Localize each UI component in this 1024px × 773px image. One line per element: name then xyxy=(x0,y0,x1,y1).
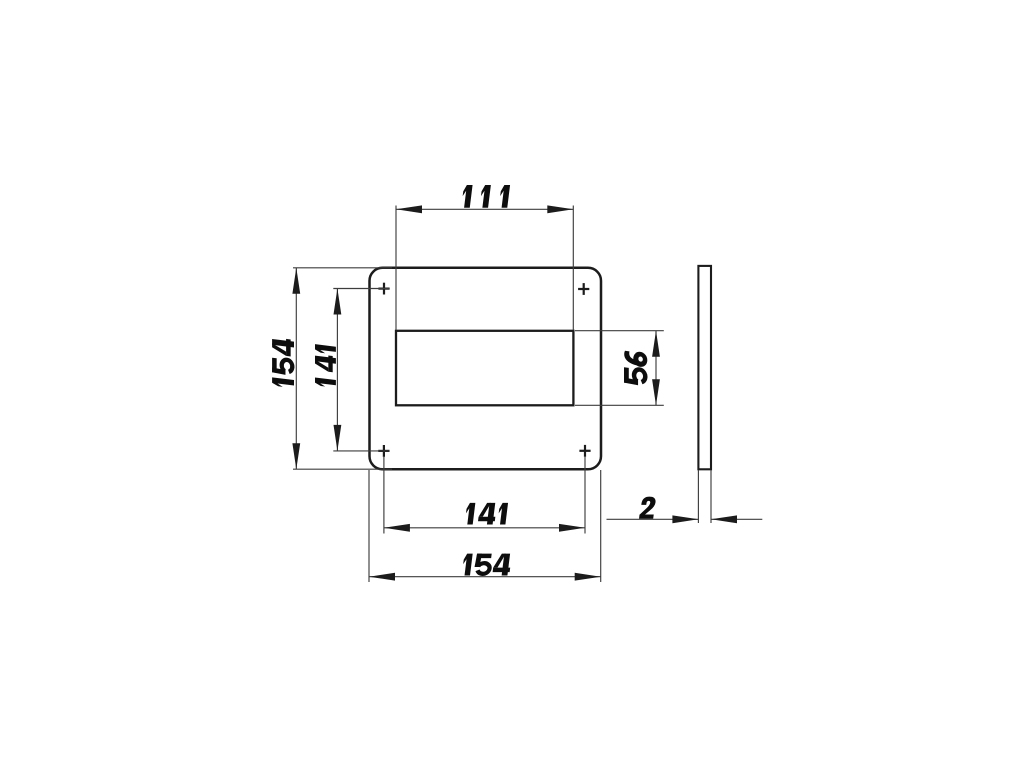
dimension 154 left line xyxy=(295,268,297,469)
dimension 141 bottom arrows xyxy=(384,524,585,532)
plate outline (front view) xyxy=(370,268,602,470)
dimension 141 left line xyxy=(336,289,338,451)
dimension 111 line xyxy=(396,208,573,210)
dimension 141 left label xyxy=(315,344,336,388)
dimension 56 label xyxy=(624,350,647,386)
side view plate xyxy=(698,266,711,469)
dimension 111 extension lines xyxy=(396,206,573,331)
dimension 2 label xyxy=(639,497,656,519)
dimension 154 bottom extension lines xyxy=(369,470,601,582)
slot cutout xyxy=(396,331,573,406)
dimension 2 lines xyxy=(607,518,763,520)
dimension 111 label xyxy=(461,185,510,208)
dimension 154 bottom line xyxy=(369,576,601,578)
dimension 154 left label xyxy=(272,337,294,388)
dimension 56 line xyxy=(655,331,657,406)
dimension 154 left arrows xyxy=(292,268,300,469)
hole mark bottom-right xyxy=(579,445,590,457)
dimension 141 bottom label xyxy=(465,503,508,525)
dimension 111 arrows xyxy=(396,205,573,213)
dimension 154 left extension lines xyxy=(293,268,392,469)
dimension 141 bottom extension lines xyxy=(384,456,585,534)
dimension 2 extension lines xyxy=(698,470,711,523)
dimension 56 arrows xyxy=(652,331,660,406)
hole mark bottom-left xyxy=(378,445,389,457)
dimension 56 extension lines xyxy=(575,331,664,406)
dimension 154 bottom arrows xyxy=(369,573,601,581)
dimension 141 left arrows xyxy=(334,289,342,451)
dimension 141 left extension lines xyxy=(333,289,389,451)
dimension 154 bottom label xyxy=(462,554,512,576)
hole mark top-right xyxy=(578,283,589,295)
dimension 141 bottom line xyxy=(384,527,585,529)
dimension 2 arrows xyxy=(672,515,737,523)
hole mark top-left xyxy=(378,283,389,295)
